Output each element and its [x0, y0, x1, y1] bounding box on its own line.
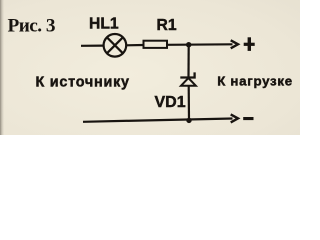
wire top left segment	[81, 44, 104, 46]
wire bottom	[83, 119, 233, 122]
arrowhead to minus terminal	[231, 114, 238, 122]
svg-text:R1: R1	[157, 17, 177, 34]
svg-text:К источнику: К источнику	[36, 75, 130, 91]
wire vertical zener branch upper	[187, 45, 189, 78]
svg-text:К нагрузке: К нагрузке	[217, 74, 293, 89]
wire vertical zener branch lower	[188, 86, 191, 121]
junction node bottom	[186, 118, 191, 123]
lamp HL1	[104, 34, 127, 57]
plus terminal	[244, 37, 255, 51]
resistor R1	[144, 41, 168, 48]
svg-text:HL1: HL1	[89, 16, 119, 33]
arrowhead to plus terminal	[231, 40, 238, 48]
wire resistor to arrow	[167, 43, 233, 46]
zener diode VD1	[180, 72, 196, 85]
wire lamp to resistor	[126, 44, 143, 46]
minus terminal	[243, 117, 253, 120]
svg-text:VD1: VD1	[155, 94, 186, 111]
junction node top	[186, 42, 191, 47]
svg-text:Рис. 3: Рис. 3	[8, 16, 55, 37]
